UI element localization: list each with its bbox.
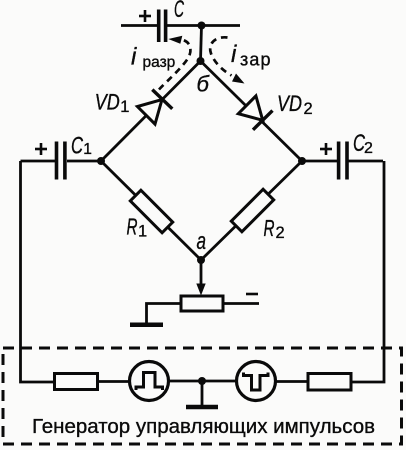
svg-text:VD: VD: [95, 89, 120, 114]
svg-text:VD: VD: [277, 91, 302, 116]
svg-text:1: 1: [83, 141, 92, 158]
svg-text:C: C: [71, 133, 83, 160]
svg-text:1: 1: [138, 223, 147, 241]
svg-text:C: C: [174, 0, 184, 23]
svg-text:Генератор управляющих импульсо: Генератор управляющих импульсов: [32, 415, 375, 438]
svg-text:2: 2: [304, 100, 313, 118]
svg-text:2: 2: [276, 224, 285, 242]
svg-text:б: б: [197, 72, 211, 97]
svg-text:R: R: [264, 215, 275, 241]
svg-text:разр: разр: [143, 54, 176, 71]
svg-text:R: R: [127, 214, 138, 240]
svg-text:2: 2: [364, 140, 373, 157]
svg-text:i: i: [131, 44, 137, 71]
svg-text:зар: зар: [240, 50, 272, 70]
svg-text:a: a: [197, 228, 207, 255]
svg-text:1: 1: [120, 98, 129, 116]
svg-text:i: i: [231, 41, 237, 68]
